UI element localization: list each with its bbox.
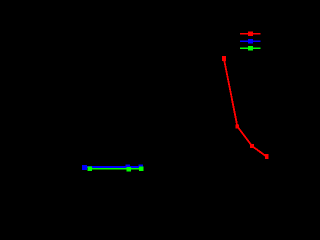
red data series xyxy=(222,56,269,159)
legend red sample line xyxy=(240,32,261,36)
blue data series xyxy=(82,165,143,170)
legend green sample line xyxy=(240,46,261,50)
green data series xyxy=(88,167,144,172)
legend blue sample line xyxy=(240,39,261,44)
